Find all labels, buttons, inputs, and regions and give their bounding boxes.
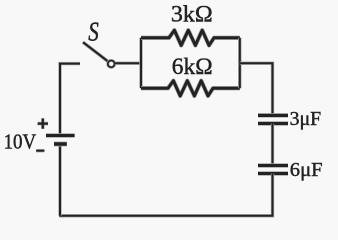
label S [88, 16, 99, 46]
wire bottom-left corner up to battery negative plate [58, 144, 61, 216]
battery polarity plus sign [38, 118, 48, 128]
wire left bar of parallel network (node joining R1 and R2) [139, 38, 142, 88]
battery V1 negative plate (short thick) [54, 142, 67, 147]
switch S contact circle [108, 61, 115, 68]
svg-text:3kΩ: 3kΩ [171, 1, 213, 26]
wire switch circle to resistor network left node [115, 62, 141, 65]
battery polarity minus sign [36, 149, 44, 152]
svg-text:6μF: 6μF [290, 159, 323, 181]
label 10V [4, 129, 37, 153]
switch S lever (open blade) [83, 42, 108, 61]
battery V1 positive plate (long) [46, 133, 75, 137]
wire capacitor C1 bottom plate to capacitor C2 top plate [271, 124, 274, 166]
wire right bar of parallel network (node joining R1 and R2) [238, 38, 241, 88]
capacitor C2 6μF [258, 166, 288, 174]
resistor R1 3kΩ (top branch) [141, 30, 240, 45]
wire battery positive up to top-left corner and right to switch contact [60, 64, 80, 136]
svg-text:6kΩ: 6kΩ [172, 54, 213, 79]
label 6kΩ [172, 54, 213, 79]
label 3kΩ [171, 1, 213, 26]
svg-text:3μF: 3μF [290, 108, 322, 130]
capacitor C1 3μF [258, 115, 288, 123]
label 3μF [290, 108, 322, 130]
label 6μF [290, 159, 323, 181]
svg-text:S: S [88, 16, 99, 46]
wire capacitor C2 down to bottom-right corner and along bottom to battery negative [59, 174, 272, 216]
wire network right node to capacitor C1 top plate [240, 63, 273, 115]
resistor R2 6kΩ (bottom branch) [141, 81, 240, 96]
svg-text:10V: 10V [4, 129, 37, 153]
